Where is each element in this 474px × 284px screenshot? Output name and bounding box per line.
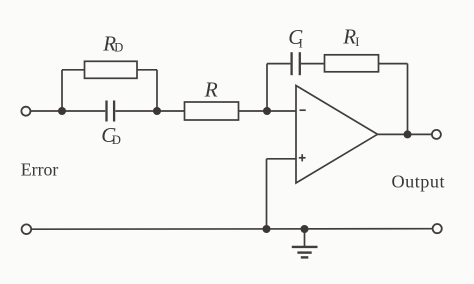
- node B junction dot: [153, 107, 161, 115]
- wire feedback to capacitor CI: [267, 63, 290, 65]
- capacitor CI: [292, 52, 300, 75]
- wire to resistor RD: [62, 69, 85, 71]
- svg-text:I: I: [355, 35, 359, 49]
- wire node A up: [61, 70, 63, 111]
- resistor RD: [85, 61, 138, 78]
- ground rail junction dot (ground): [301, 225, 309, 233]
- terminal bottom left: [22, 224, 32, 234]
- wire op-amp output: [378, 133, 432, 135]
- svg-text:I: I: [299, 36, 303, 50]
- svg-text:Output: Output: [392, 172, 446, 192]
- terminal output: [432, 130, 441, 139]
- wire capacitor CI to resistor RI: [301, 63, 325, 65]
- svg-text:D: D: [114, 41, 123, 55]
- resistor R: [185, 102, 239, 120]
- op-amp plus sign: [299, 157, 306, 159]
- wire node C up to feedback: [266, 64, 268, 111]
- wire down to node B: [156, 70, 158, 111]
- wire node A to capacitor CD: [62, 110, 105, 112]
- wire op-amp noninverting input: [267, 158, 297, 160]
- svg-text:R: R: [204, 77, 218, 101]
- capacitor CD: [107, 101, 115, 122]
- wire resistor RD to right: [137, 69, 157, 71]
- op-amp minus sign: [300, 109, 306, 111]
- wire input to node A: [30, 110, 62, 112]
- wire resistor R to node C: [239, 110, 268, 112]
- terminal input (Error): [21, 107, 30, 116]
- terminal bottom right: [433, 224, 442, 233]
- wire resistor RI to right: [379, 63, 408, 65]
- svg-text:R: R: [342, 25, 356, 49]
- output node junction dot: [404, 130, 412, 138]
- wire noninverting input down to ground rail: [266, 159, 268, 229]
- op-amp U1: [296, 86, 378, 184]
- node A junction dot: [58, 107, 66, 115]
- ground symbol: [292, 229, 318, 257]
- wire node C to op-amp inverting input: [267, 110, 296, 112]
- resistor RI: [325, 55, 379, 72]
- node C junction dot: [263, 107, 271, 115]
- wire feedback down to output node: [407, 64, 409, 135]
- ground rail wire: [32, 228, 433, 231]
- wire capacitor CD to node B: [115, 110, 157, 112]
- ground rail junction dot (noninverting): [263, 225, 271, 233]
- wire node B to resistor R: [157, 110, 185, 112]
- svg-text:Error: Error: [21, 159, 59, 179]
- svg-text:D: D: [112, 133, 121, 147]
